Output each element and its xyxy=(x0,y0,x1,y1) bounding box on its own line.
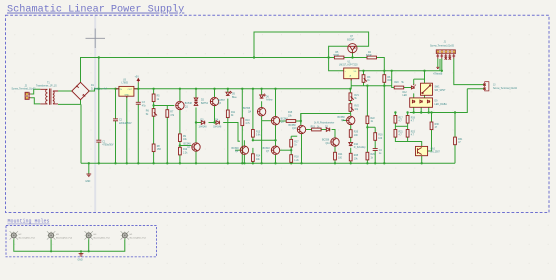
led D12 xyxy=(411,84,416,89)
regulator U1 LM317 xyxy=(344,68,359,81)
svg-text:Yellow: Yellow xyxy=(266,100,273,102)
svg-text:LED_RGBA: LED_RGBA xyxy=(435,103,448,106)
capacitor C2 xyxy=(113,119,118,121)
ground symbol main xyxy=(86,174,91,177)
svg-text:D_Bridge_+-AA: D_Bridge_+-AA xyxy=(91,87,107,90)
wire: R13 column xyxy=(252,89,254,164)
wire: R30b column xyxy=(428,113,432,152)
svg-text:R19: R19 xyxy=(411,117,416,119)
node: mid junctions xyxy=(152,104,154,106)
svg-text:R24: R24 xyxy=(338,154,343,156)
wire: Q6 base stub xyxy=(235,149,240,151)
wire: J1 pin2 to out rail xyxy=(441,59,443,71)
wire: Q1 collector xyxy=(179,89,181,102)
transistor Q6 xyxy=(240,146,249,154)
wire: diode line D3 D4 xyxy=(196,123,240,142)
wire: Q9 base stub xyxy=(343,119,347,121)
svg-text:R17: R17 xyxy=(294,141,299,143)
wire: R31 column from y112.5 to bus corner xyxy=(454,113,456,164)
wire: R5/R6 trimmer column xyxy=(153,89,155,164)
wire: J1 pin1 stub xyxy=(437,59,439,68)
power symbol +5V xyxy=(137,79,139,83)
svg-text:1N4148: 1N4148 xyxy=(213,127,222,129)
resistor R5 xyxy=(152,94,155,102)
wire: grid mid join xyxy=(395,125,407,127)
resistor R5h 560R xyxy=(334,56,344,59)
connector J2 xyxy=(25,92,31,99)
svg-text:+5VandB: +5VandB xyxy=(433,74,443,76)
wire: Q9 emitter chain R26 D10 R28 xyxy=(350,125,352,164)
svg-text:R13: R13 xyxy=(256,131,261,133)
svg-text:1N4148: 1N4148 xyxy=(199,127,208,129)
resistor R28 xyxy=(349,153,352,161)
wire: Q5 column xyxy=(275,89,277,164)
resistor R24 xyxy=(334,152,337,160)
resistor R17 xyxy=(290,139,293,147)
led module D9 xyxy=(410,98,433,107)
wire: x98.8 column through C1 to bottom bus xyxy=(98,58,100,164)
transistor Q9 xyxy=(346,116,355,124)
resistor R7 xyxy=(166,110,169,118)
svg-text:RV2: RV2 xyxy=(354,106,359,108)
svg-text:BC548: BC548 xyxy=(185,103,193,105)
main sheet dashed border xyxy=(6,15,550,212)
svg-text:BC548: BC548 xyxy=(184,143,192,145)
wire: bottom bus xyxy=(81,162,455,164)
power transistor Q10 xyxy=(416,146,428,155)
wire: Q7b base to R17 column xyxy=(280,149,291,151)
svg-text:2N_2907: 2N_2907 xyxy=(431,152,441,154)
resistor R22 xyxy=(366,116,369,124)
svg-text:82R: 82R xyxy=(387,80,392,82)
node: top rail junctions xyxy=(98,56,100,58)
wire: SW1 bottom to D9 top xyxy=(414,93,425,98)
wire: Q8 down to bus xyxy=(301,134,303,163)
relay switch SW1 xyxy=(421,83,433,95)
resistor R14 xyxy=(252,154,255,162)
wire: J1 pin5 down to output xyxy=(454,59,485,85)
svg-text:R29: R29 xyxy=(371,154,376,156)
ground symbol mh xyxy=(79,254,84,257)
wire: +5V arrow stem xyxy=(137,82,139,89)
svg-text:R10: R10 xyxy=(245,120,250,122)
svg-text:Q11: Q11 xyxy=(326,143,331,145)
svg-text:GND: GND xyxy=(78,259,83,261)
transistor Q2 xyxy=(192,143,201,151)
wire: R20 to LED D12 xyxy=(404,87,412,89)
svg-text:R26: R26 xyxy=(354,132,359,134)
resistor R8 xyxy=(152,144,155,152)
svg-text:R31: R31 xyxy=(458,139,463,141)
transistor Q7 top xyxy=(348,44,357,53)
resistor R19 xyxy=(312,128,322,131)
svg-text:Screw_Terminal_01x02: Screw_Terminal_01x02 xyxy=(493,87,518,90)
resistor R6b 82R xyxy=(383,75,386,83)
mounting holes dashed border xyxy=(6,226,157,257)
svg-text:MountingHole_Pad: MountingHole_Pad xyxy=(19,236,35,239)
svg-text:D_Schottky: D_Schottky xyxy=(354,146,367,149)
wire: R7 column xyxy=(166,106,168,164)
wire: mounting hole bus xyxy=(14,238,125,253)
wire: J2 pin2 jog to transformer primary bottom xyxy=(31,98,41,104)
connector J1 xyxy=(436,50,455,59)
led D5 xyxy=(226,91,232,95)
node: mh bus junctions xyxy=(50,250,52,252)
wire: base feed to Q1 xyxy=(154,105,175,107)
svg-text:BC548: BC548 xyxy=(232,148,240,150)
svg-text:R30: R30 xyxy=(378,135,383,137)
svg-text:MountingHole_Pad: MountingHole_Pad xyxy=(130,236,146,239)
svg-text:BC558: BC558 xyxy=(322,140,330,142)
svg-text:1k R_Potentiometer: 1k R_Potentiometer xyxy=(314,121,335,124)
svg-text:Q10: Q10 xyxy=(431,149,436,151)
wire: R17 R18 column xyxy=(290,136,292,163)
svg-text:4700u/50V: 4700u/50V xyxy=(102,145,114,147)
node: right block junctions xyxy=(413,111,415,113)
resistor R18 xyxy=(290,155,293,163)
svg-text:R17: R17 xyxy=(399,117,404,119)
wire: RV chain below adj xyxy=(301,89,351,124)
resistor R20 xyxy=(394,86,404,89)
svg-text:2200uF/50V: 2200uF/50V xyxy=(119,123,132,125)
svg-text:R21: R21 xyxy=(399,131,404,133)
svg-text:R18: R18 xyxy=(294,157,299,159)
wire: R9/R12 tap to Q2 base xyxy=(180,145,191,147)
wire: D6 Q4 column xyxy=(261,89,263,164)
svg-text:BAT54: BAT54 xyxy=(201,102,209,105)
svg-text:LED: LED xyxy=(403,95,408,97)
svg-text:R19: R19 xyxy=(311,127,316,129)
transistor Q5 xyxy=(271,117,280,125)
wire: R13 bottom join to Q5 emitter xyxy=(253,139,276,141)
trimmer R6 xyxy=(152,109,157,117)
svg-text:GND: GND xyxy=(85,181,90,183)
diode D4 xyxy=(216,121,219,125)
wire: Q10 emitter to bus xyxy=(421,156,423,164)
editor crosshair cross xyxy=(86,29,106,49)
resistor R9 xyxy=(179,134,182,142)
wire: Q2 column xyxy=(195,123,197,164)
wire: LM317 out rail to J1 xyxy=(359,59,440,71)
svg-text:BC557: BC557 xyxy=(218,100,226,102)
no-connect x J1 pin3 xyxy=(445,57,447,59)
no-connect x J1 pin4 xyxy=(449,57,451,59)
svg-text:R20: R20 xyxy=(394,82,399,84)
svg-text:BC547: BC547 xyxy=(347,39,355,41)
capacitor C3 xyxy=(136,102,141,104)
wire: R17 top to Q8 emitter xyxy=(291,135,297,137)
svg-text:R22: R22 xyxy=(371,118,376,120)
wire: bus left end up to bridge bottom xyxy=(80,104,82,163)
wire: transformer secondary bottom return xyxy=(58,100,81,104)
wire: R6 82R hang below out rail xyxy=(383,71,385,86)
wire: C3 column xyxy=(137,89,139,164)
wire: Q3 column xyxy=(214,89,216,123)
wire: Q6 collector and emitter xyxy=(243,140,245,163)
svg-text:D12: D12 xyxy=(403,92,408,94)
connector J3 xyxy=(483,82,489,91)
resistor R4h 820R xyxy=(367,56,377,59)
transistor Q7b xyxy=(271,146,280,154)
potentiometer RV1 xyxy=(349,93,354,101)
svg-text:560R: 560R xyxy=(333,55,339,57)
resistor R13 xyxy=(252,130,255,138)
mounting hole H3 xyxy=(47,231,55,239)
resistor R10 xyxy=(241,118,244,126)
wire: resistor grid columns xyxy=(395,113,421,147)
mounting hole H4 xyxy=(85,231,93,239)
potentiometer R3 xyxy=(362,75,367,83)
wire: feedback line y85.7 xyxy=(351,86,392,164)
wire: C2 column xyxy=(115,89,117,164)
wire: D9 pins down to y112.5 xyxy=(414,107,429,112)
resistor R12 xyxy=(179,147,182,155)
svg-text:LM317_AJP-T220: LM317_AJP-T220 xyxy=(339,64,358,67)
svg-text:R14: R14 xyxy=(256,156,261,158)
resistor R21g xyxy=(394,130,397,138)
wire: transformer secondary top to bridge left xyxy=(58,90,72,92)
svg-text:R30: R30 xyxy=(435,124,440,126)
wire: R15 horizontal link to Q5 xyxy=(279,120,301,122)
svg-text:Transformer_1P_1S: Transformer_1P_1S xyxy=(36,85,57,88)
wire: Q11 emitter to R24 to bus xyxy=(334,146,336,163)
svg-text:RV1: RV1 xyxy=(354,95,359,97)
svg-text:Q10: Q10 xyxy=(292,128,297,130)
wire: gnd stub below bus xyxy=(88,163,90,174)
bridge rectifier D1 xyxy=(72,82,89,99)
resistor R15 xyxy=(286,120,296,123)
svg-text:D10: D10 xyxy=(354,144,359,146)
diode D7 xyxy=(326,128,329,132)
svg-text:+5V: +5V xyxy=(135,77,140,79)
wire: resistor grid column 2 xyxy=(407,113,409,142)
resistor R30 xyxy=(374,133,377,141)
svg-text:L7805: L7805 xyxy=(122,83,129,85)
wire: J2 pin1 jog to transformer primary top xyxy=(31,89,41,94)
wire: Q1 emitter through R9 R12 to bus xyxy=(179,110,181,164)
node: bus junctions xyxy=(88,162,90,164)
resistor R29 xyxy=(366,152,369,160)
wire: R12b column xyxy=(241,89,243,164)
wire: U3 gnd pin to bus xyxy=(126,97,128,164)
capacitor C4 xyxy=(373,149,378,151)
wire: Q7 collector loop xyxy=(254,32,369,58)
resistor R23g xyxy=(406,130,409,138)
wire: R22 column to R29 xyxy=(366,124,368,164)
svg-text:820R: 820R xyxy=(366,55,372,57)
resistor R19g xyxy=(406,116,409,124)
transistor Q1 xyxy=(175,101,184,109)
svg-text:R23: R23 xyxy=(411,131,416,133)
wire: top rail from bridge + to R4 drop xyxy=(81,58,385,83)
editor crosshair vertical xyxy=(94,16,96,212)
svg-text:MountingHole_Pad: MountingHole_Pad xyxy=(56,236,72,239)
transistor Q11 xyxy=(331,138,340,146)
wire: Q4 base feed xyxy=(262,120,271,122)
svg-text:BC558: BC558 xyxy=(289,125,297,127)
svg-text:R12: R12 xyxy=(183,149,188,151)
svg-text:BC558: BC558 xyxy=(243,108,251,110)
transistor Q4 xyxy=(257,108,266,116)
wire: R30 C4 column xyxy=(367,127,375,163)
resistor R17g xyxy=(394,116,397,124)
wire: R3 pot hang below out rail xyxy=(363,71,365,86)
mounting hole H2 xyxy=(10,231,18,239)
svg-text:Screw_Terminal_01x05: Screw_Terminal_01x05 xyxy=(430,45,455,48)
diode pair D2 xyxy=(194,98,198,105)
svg-text:SW_SPST: SW_SPST xyxy=(435,90,447,92)
diode D10 xyxy=(349,142,353,145)
wire: SW1 tap from out rail xyxy=(414,71,425,85)
resistor R31 xyxy=(454,137,457,145)
wire: main +5 rail from U3 out xyxy=(134,88,351,90)
regulator U3 L7805 xyxy=(116,86,138,98)
svg-text:R15: R15 xyxy=(288,112,293,114)
wire: Q9 collector xyxy=(350,114,352,117)
svg-text:15R: 15R xyxy=(157,149,162,151)
wire: bridge right output jog to U3 input rail xyxy=(89,89,120,91)
resistor R26 xyxy=(349,130,352,138)
capacitor C1 xyxy=(96,140,101,142)
transistor Q8 xyxy=(297,125,306,133)
svg-text:Mounting Holes: Mounting Holes xyxy=(8,219,50,225)
wire: D2 pair column xyxy=(195,89,197,123)
resistor R30b xyxy=(430,122,433,130)
svg-text:Blue: Blue xyxy=(232,97,237,99)
svg-text:R28: R28 xyxy=(354,155,359,157)
node: +5 rail junctions xyxy=(98,88,100,90)
transistor Q3 xyxy=(210,97,219,105)
svg-text:BC548: BC548 xyxy=(263,148,271,150)
node: out rail junctions xyxy=(362,70,364,72)
wire: Q8 base line with R19 and D7 xyxy=(306,130,335,138)
svg-text:SW1: SW1 xyxy=(435,87,441,89)
potentiometer RV2 xyxy=(349,104,354,112)
wire: R20 feed from out rail xyxy=(392,71,395,88)
svg-text:Screw_Terminal_01x02: Screw_Terminal_01x02 xyxy=(12,88,37,91)
svg-text:Schamatic Linear Power Supply: Schamatic Linear Power Supply xyxy=(7,4,184,16)
wire: LM317 adj pin down xyxy=(350,79,352,89)
led D6 xyxy=(260,94,266,98)
transformer T1 xyxy=(40,89,58,105)
svg-text:GND: GND xyxy=(124,94,129,96)
svg-text:MountingHole_Pad: MountingHole_Pad xyxy=(94,236,110,239)
resistor R11 xyxy=(226,110,229,118)
power flag pin1 xyxy=(436,67,439,68)
wire: output return loop xyxy=(410,89,485,113)
mounting hole H1 xyxy=(121,231,129,239)
wire: Q7 base and drop to U1 input xyxy=(329,46,349,71)
svg-text:BC558: BC558 xyxy=(338,117,346,119)
wire: R15 column from y113.5 xyxy=(300,114,302,126)
diode D3 xyxy=(201,121,204,125)
svg-text:OUT: OUT xyxy=(128,89,133,91)
wire: Q7 emitter xyxy=(352,53,354,58)
wire: D5 R11 column xyxy=(227,89,229,164)
